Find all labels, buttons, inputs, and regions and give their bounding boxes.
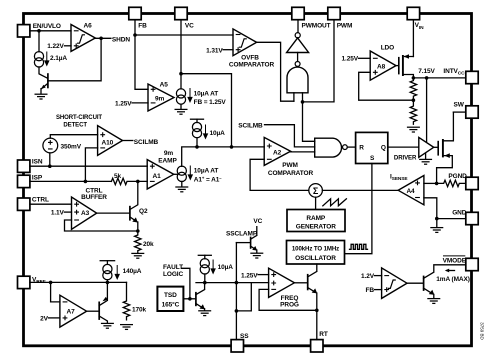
ground at 20k — [131, 253, 144, 258]
wire VC net to A2 plus — [182, 147, 265, 166]
value 1.1V — [51, 210, 72, 217]
ground at A5 current source — [175, 109, 188, 114]
pin VIN — [407, 7, 424, 31]
node PWM gate junction — [301, 100, 305, 104]
wire SW pin — [453, 111, 465, 113]
svg-text:PWMOUT: PWMOUT — [302, 22, 331, 29]
wire FB to OVFB comparator — [135, 34, 233, 36]
current source 10uA at A1 — [174, 166, 223, 187]
current source fault 10uA — [200, 259, 233, 283]
svg-text:LOGIC: LOGIC — [163, 271, 183, 278]
wire summer to ramp generator — [315, 197, 317, 209]
svg-text:OSCILLATOR: OSCILLATOR — [295, 255, 336, 262]
NAND output bubble — [343, 145, 348, 150]
svg-text:140µA: 140µA — [123, 268, 142, 275]
svg-text:2V: 2V — [40, 315, 49, 322]
amp A4 current sense — [390, 173, 424, 205]
svg-text:SS: SS — [240, 333, 249, 340]
transistor Q hysteresis — [39, 67, 48, 94]
wire CTRL input — [30, 203, 72, 205]
wire INTVCC rail — [413, 68, 465, 78]
svg-text:7.15V: 7.15V — [418, 68, 435, 75]
wire A3 feedback — [65, 220, 138, 231]
transistor freq prog — [294, 264, 317, 310]
current source 140uA — [103, 264, 142, 282]
svg-text:PGND: PGND — [448, 173, 467, 180]
svg-text:PWM: PWM — [282, 162, 298, 169]
label SHORT-CIRCUIT DETECT — [56, 115, 102, 129]
node 10uA tap — [195, 145, 199, 149]
svg-text:PROG: PROG — [280, 301, 299, 308]
wire inverter to NAND bubble — [297, 53, 299, 62]
svg-text:VC: VC — [253, 218, 262, 225]
wire INTVCC supply to driver — [426, 78, 428, 142]
comparator A2 PWM — [264, 137, 313, 176]
label 1mA MAX with arrow — [436, 269, 470, 283]
node 140uA tap — [106, 281, 110, 285]
svg-text:ISN: ISN — [32, 159, 43, 166]
node driver supply tap — [425, 76, 429, 80]
wire A4 output to summer — [322, 189, 398, 191]
svg-text:9m: 9m — [164, 150, 174, 157]
pin RT — [311, 331, 328, 352]
svg-text:RT: RT — [319, 331, 328, 338]
node ISENSE junction — [435, 182, 439, 186]
svg-text:10µA: 10µA — [210, 130, 226, 137]
resistor 170k — [123, 282, 146, 319]
svg-text:SHORT-CIRCUIT: SHORT-CIRCUIT — [56, 115, 102, 121]
label CTRL BUFFER — [81, 188, 107, 202]
value 1.31V — [206, 47, 233, 54]
svg-text:10µA AT: 10µA AT — [194, 91, 219, 98]
wire EN node down — [38, 31, 40, 52]
svg-text:A2: A2 — [273, 150, 282, 157]
amp A3 ctrl buffer — [72, 197, 97, 229]
svg-text:1.31V: 1.31V — [206, 47, 223, 54]
svg-text:FB: FB — [366, 287, 375, 294]
svg-text:20k: 20k — [143, 241, 154, 248]
transistor PMOS LDO pass — [396, 54, 413, 78]
node fault collector junction — [203, 281, 207, 285]
wire 350mV to A10 plus — [50, 135, 97, 138]
pin VREF — [18, 276, 46, 288]
node FB junction — [133, 33, 137, 37]
ground at VREF buffer — [101, 323, 114, 328]
clock pulse glyph — [350, 244, 368, 249]
svg-text:TSD: TSD — [164, 292, 177, 299]
amp A1 error EAMP — [147, 150, 177, 189]
svg-text:A10: A10 — [102, 139, 114, 146]
wire OVFB output to NAND — [257, 42, 294, 101]
amp FREQ PROG — [269, 268, 299, 308]
value 1.25V at freq prog — [241, 272, 269, 279]
summer sigma — [309, 184, 323, 198]
svg-text:3759 BD: 3759 BD — [480, 322, 485, 340]
comparator A10 — [98, 126, 123, 156]
svg-text:10µA: 10µA — [218, 264, 234, 271]
svg-text:ISP: ISP — [32, 174, 43, 181]
ground at SSCLAMP — [250, 253, 263, 258]
supply bar 10uA source — [191, 119, 204, 122]
node LDO feedback — [412, 98, 416, 102]
svg-text:1.22V: 1.22V — [47, 43, 64, 50]
node freq feedback junction — [315, 309, 319, 313]
ground at A1 source — [175, 187, 188, 192]
ground at driver — [419, 153, 432, 164]
svg-text:2.1µA: 2.1µA — [50, 55, 67, 62]
flip-flop RS latch — [356, 132, 388, 163]
inverter to PWMOUT — [287, 38, 309, 53]
node A7 feedback tap — [49, 281, 53, 285]
svg-text:DETECT: DETECT — [63, 123, 87, 129]
value 1.22V — [47, 43, 71, 50]
op-amp A6 — [71, 23, 95, 52]
pin VMODE — [443, 256, 479, 271]
node VC branch — [230, 145, 234, 149]
label FAULT LOGIC — [163, 264, 190, 299]
svg-text:FAULT: FAULT — [163, 264, 183, 271]
resistor divider R2 — [410, 100, 416, 124]
svg-text:CTRL: CTRL — [32, 196, 49, 203]
svg-text:RAMP: RAMP — [306, 215, 326, 222]
source 350mV — [43, 138, 82, 166]
pin PWMOUT — [292, 7, 331, 29]
node 5k junction — [136, 180, 140, 184]
value 1.25V at A5 — [115, 100, 148, 107]
wire A2 minus to summer line — [250, 159, 309, 190]
svg-text:A8: A8 — [377, 63, 386, 70]
wire PWMOUT pin down — [297, 20, 299, 33]
svg-text:COMPARATOR: COMPARATOR — [268, 170, 314, 177]
transistor VMODE output — [407, 265, 466, 298]
svg-text:EN/UVLO: EN/UVLO — [33, 23, 61, 30]
wire ISN input — [30, 165, 147, 167]
ground at A4 — [430, 219, 443, 233]
transistor SSCLAMP — [236, 218, 262, 253]
pin ISP — [18, 174, 43, 187]
wire SS net vertical — [235, 243, 237, 340]
node EN junction — [37, 29, 41, 33]
svg-text:100kHz TO 1MHz: 100kHz TO 1MHz — [292, 245, 339, 252]
node VC junction — [179, 72, 183, 76]
wire VREF rail — [30, 281, 127, 283]
svg-text:SW: SW — [454, 102, 465, 109]
svg-text:350mV: 350mV — [61, 143, 82, 150]
wire A7 minus feedback — [51, 282, 60, 302]
pin EN/UVLO — [18, 23, 61, 37]
svg-text:SCILMB: SCILMB — [238, 122, 263, 129]
op-amp A5 — [148, 81, 174, 111]
svg-text:VC: VC — [185, 22, 194, 29]
wire S input from oscillator — [345, 164, 372, 254]
wire VC pin down — [180, 20, 182, 89]
svg-text:Q: Q — [381, 145, 386, 152]
ground at 170k — [120, 325, 133, 330]
svg-text:1.1V: 1.1V — [51, 210, 65, 217]
ground at VMODE transistor — [427, 299, 440, 304]
node ISN junction — [48, 164, 52, 168]
pin VC — [175, 7, 194, 29]
ground at divider — [407, 127, 420, 132]
transistor VREF buffer — [87, 282, 108, 322]
svg-text:SHDN: SHDN — [112, 36, 130, 43]
svg-text:LDO: LDO — [381, 45, 394, 52]
NAND bubble (vertical gate) — [295, 61, 300, 66]
pin PGND — [448, 173, 478, 189]
svg-text:A7: A7 — [67, 309, 76, 316]
resistor divider R1 — [410, 78, 416, 100]
wire A4 plus input — [424, 182, 437, 184]
block RAMP GENERATOR — [287, 210, 345, 232]
pin SS — [231, 333, 249, 352]
svg-text:10µA AT: 10µA AT — [194, 167, 219, 174]
block TSD 165C — [157, 287, 183, 311]
svg-text:9m: 9m — [155, 95, 165, 102]
sawtooth ramp glyph — [323, 199, 347, 206]
transistor Q2 — [97, 181, 148, 231]
svg-text:A4: A4 — [406, 188, 415, 195]
pin INTVCC — [443, 68, 478, 84]
comparator OVFB — [229, 29, 275, 69]
svg-text:A1: A1 — [153, 173, 162, 180]
wire NAND to R input — [347, 146, 355, 148]
svg-text:1mA (MAX): 1mA (MAX) — [436, 276, 470, 283]
wire ISP input — [30, 180, 112, 182]
pin GND — [452, 210, 478, 225]
svg-text:FB: FB — [138, 22, 147, 29]
svg-text:1.25V: 1.25V — [342, 56, 359, 63]
value 2V — [40, 315, 60, 322]
current source 10uA at FB=1.25V — [176, 88, 226, 109]
wire fault clamp line — [196, 282, 269, 284]
svg-text:GENERATOR: GENERATOR — [296, 223, 336, 230]
svg-text:FB = 1.25V: FB = 1.25V — [194, 99, 227, 106]
node ISP junction — [84, 180, 88, 184]
svg-text:Σ: Σ — [313, 186, 319, 196]
wire EN/UVLO input — [30, 30, 71, 32]
pin FB — [129, 7, 147, 29]
node SS clamp junction — [235, 281, 239, 285]
wire TSD to fault transistor — [183, 298, 195, 300]
wire VIN pin down — [412, 20, 414, 57]
wire PWM net to pulse-skip NAND input — [303, 102, 315, 141]
node fault base junction — [188, 297, 192, 301]
svg-text:Q2: Q2 — [139, 208, 148, 215]
svg-text:EAMP: EAMP — [158, 158, 177, 165]
node GND junction — [435, 217, 439, 221]
svg-text:VMODE: VMODE — [443, 257, 467, 264]
buffer DRIVER — [394, 137, 434, 161]
wire VC node to PWM comparator — [181, 74, 232, 147]
pin ISN — [18, 159, 43, 173]
svg-text:COMPARATOR: COMPARATOR — [229, 62, 275, 69]
wire A8 feedback — [359, 72, 414, 100]
transistor NMOS power switch — [434, 112, 454, 183]
pin SW — [454, 102, 479, 119]
ground at fault transistor — [198, 311, 211, 316]
node A3 feedback junction — [136, 229, 140, 233]
resistor sense to PGND — [437, 180, 466, 186]
svg-text:165°C: 165°C — [162, 300, 180, 308]
resistor 20k — [135, 231, 154, 253]
transistor fault — [196, 283, 205, 310]
ground at hysteresis transistor — [35, 94, 48, 99]
wire SHDN output — [95, 36, 130, 43]
node SS lower junction — [235, 309, 239, 313]
wire A4 minus input to GND — [424, 198, 437, 219]
svg-text:SSCLAMP: SSCLAMP — [226, 230, 258, 237]
op-amp A8 LDO — [370, 45, 396, 81]
svg-text:1.25V: 1.25V — [241, 272, 258, 279]
svg-text:PWM: PWM — [337, 22, 353, 29]
svg-text:OVFB: OVFB — [241, 54, 259, 61]
current source 10uA — [192, 122, 225, 146]
supply bar 140uA — [100, 261, 114, 265]
supply bar fault 10uA — [198, 255, 211, 258]
wire freq prog feedback — [259, 289, 317, 310]
inverter bubble at PWMOUT — [295, 33, 300, 38]
wire A2 output to NAND — [291, 151, 315, 153]
label SCILMB net at NAND — [238, 122, 314, 147]
svg-text:1.25V: 1.25V — [115, 100, 132, 107]
pin CTRL — [18, 196, 49, 210]
wire SHDN to hysteresis transistor base — [48, 38, 101, 81]
pin PWM — [328, 7, 352, 29]
svg-text:SCILMB: SCILMB — [134, 139, 159, 146]
op-amp A7 — [60, 295, 87, 327]
svg-text:A1+ = A1−: A1+ = A1− — [194, 176, 222, 184]
svg-text:A6: A6 — [84, 23, 93, 30]
label SCILMB output — [123, 139, 159, 146]
wire SS jog to freq prog — [236, 283, 251, 311]
svg-text:1.2V: 1.2V — [361, 273, 375, 280]
node SHDN junction — [99, 37, 103, 41]
current source 2.1uA — [34, 52, 67, 68]
wire Q output to driver — [388, 146, 419, 148]
svg-text:A5: A5 — [160, 81, 169, 88]
svg-text:BUFFER: BUFFER — [81, 194, 107, 201]
svg-text:GND: GND — [452, 210, 467, 217]
wire RT pin — [316, 310, 318, 339]
svg-text:A3: A3 — [81, 210, 90, 217]
wire A10 minus to ISP — [85, 148, 97, 182]
node 7.15V — [412, 76, 416, 80]
svg-text:R: R — [359, 145, 364, 152]
wire FB pin down — [135, 20, 148, 90]
comparator VMODE — [361, 268, 407, 299]
block OSCILLATOR — [287, 241, 345, 265]
svg-text:170k: 170k — [132, 306, 147, 313]
NAND gate horizontal — [315, 138, 342, 157]
wire NAND left leg — [293, 93, 295, 101]
value 1.25V at LDO — [342, 56, 371, 63]
wire GND pin — [437, 218, 466, 220]
svg-text:DRIVER: DRIVER — [394, 154, 417, 161]
wire PWM pin down to gate — [303, 20, 335, 102]
NAND gate vertical — [287, 67, 308, 93]
resistor 5k — [111, 173, 147, 185]
wire NAND right leg — [302, 93, 304, 102]
